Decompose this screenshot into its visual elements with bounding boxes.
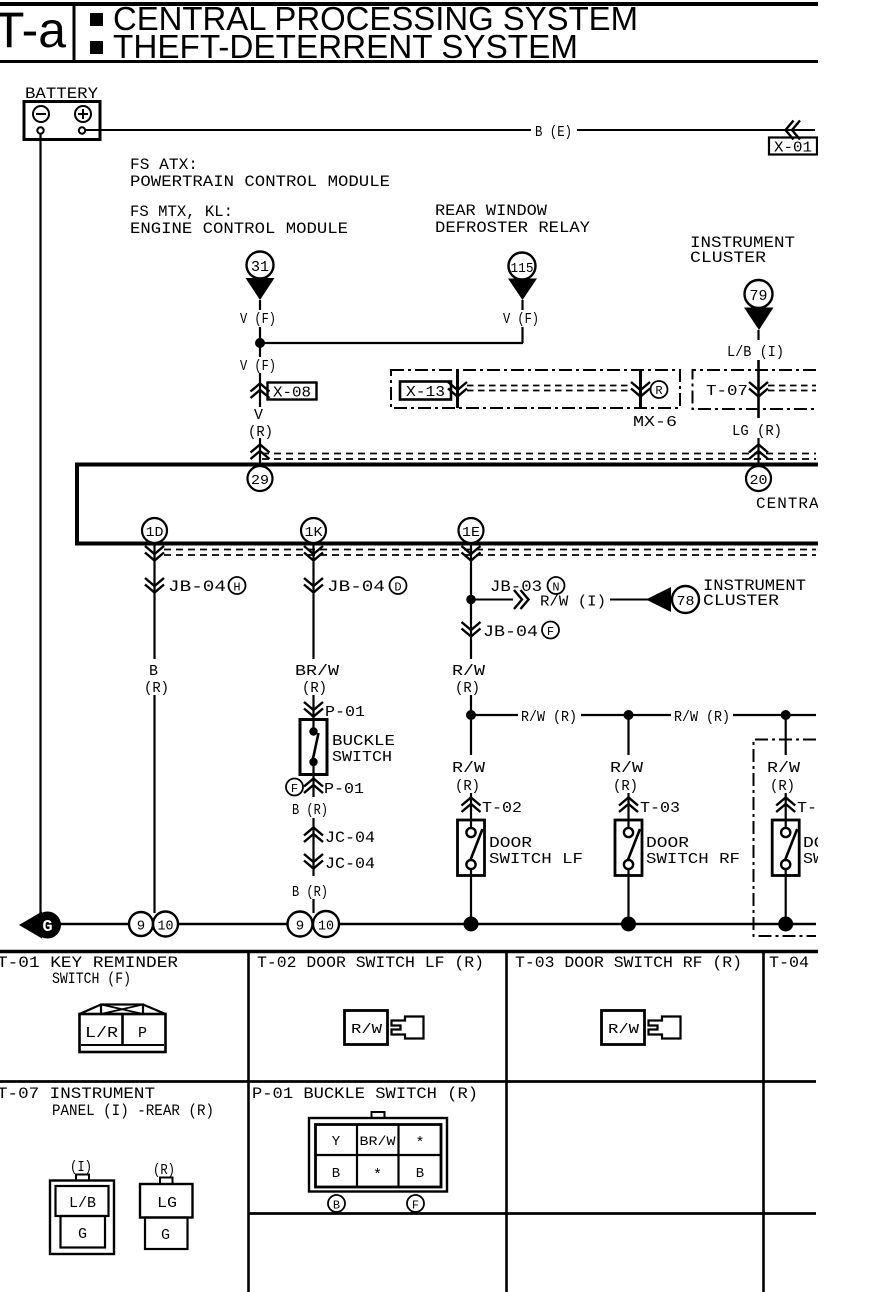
svg-text:CLUSTER: CLUSTER xyxy=(690,249,766,267)
svg-text:X-08: X-08 xyxy=(273,385,311,402)
svg-text:BR/W: BR/W xyxy=(360,1134,396,1149)
wire to arrow xyxy=(610,599,648,601)
chevron out of bus xyxy=(145,546,164,561)
svg-text:V: V xyxy=(254,407,263,424)
svg-text:DOOR: DOOR xyxy=(489,835,532,852)
svg-text:29: 29 xyxy=(251,473,269,489)
svg-text:H: H xyxy=(233,581,240,595)
svg-text:T-07: T-07 xyxy=(706,383,748,400)
svg-text:BUCKLE: BUCKLE xyxy=(332,733,395,750)
dashed pair to MX-6 relay xyxy=(467,385,630,387)
svg-text:B: B xyxy=(149,663,158,680)
buckle switch P-01 xyxy=(300,720,327,775)
wire down xyxy=(627,715,629,755)
svg-text:Y: Y xyxy=(332,1134,341,1150)
connector T-01 drawing xyxy=(80,1005,166,1053)
ring terminal 10 xyxy=(153,912,178,937)
svg-text:P-01: P-01 xyxy=(325,704,365,721)
circled F + chevron P-01 xyxy=(286,779,303,796)
pin 78 circle xyxy=(672,586,699,613)
svg-text:POWERTRAIN CONTROL MODULE: POWERTRAIN CONTROL MODULE xyxy=(130,173,390,191)
svg-text:F: F xyxy=(412,1199,419,1213)
door switch RF xyxy=(615,820,642,876)
wire below buckle switch xyxy=(312,762,314,797)
wire to ground xyxy=(785,869,787,924)
svg-text:T-07 INSTRUMENT: T-07 INSTRUMENT xyxy=(0,1085,155,1103)
wire 1K down xyxy=(312,543,314,659)
svg-text:JB-04: JB-04 xyxy=(483,623,538,641)
ring terminal 9 xyxy=(288,912,313,937)
svg-text:B (R): B (R) xyxy=(292,884,328,901)
svg-text:PANEL (I) -REAR (R): PANEL (I) -REAR (R) xyxy=(52,1102,214,1120)
wire through JC-04 xyxy=(312,818,314,876)
connector box X-13 xyxy=(400,382,451,400)
pin 29 circle xyxy=(248,466,273,491)
svg-text:G: G xyxy=(42,918,52,937)
header bottom border xyxy=(0,60,818,63)
pin 1D circle xyxy=(142,518,167,543)
wire to instrument cluster xyxy=(471,599,513,601)
wire horizontal join xyxy=(260,342,523,344)
svg-text:B (E): B (E) xyxy=(535,124,572,141)
svg-text:SWITCH LF: SWITCH LF xyxy=(489,851,583,868)
svg-text:D: D xyxy=(394,581,401,595)
connector T-07 (R) drawing xyxy=(140,1178,193,1250)
chevron P-01 xyxy=(304,702,323,717)
svg-text:(R): (R) xyxy=(144,680,169,697)
chevron T-07 xyxy=(749,382,768,397)
chevron into bus xyxy=(749,445,768,460)
arrow 115 xyxy=(508,279,537,301)
wire stub MX-6 xyxy=(639,370,642,408)
node door LF/RF xyxy=(624,710,634,720)
svg-text:P-01 BUCKLE SWITCH (R): P-01 BUCKLE SWITCH (R) xyxy=(252,1085,478,1103)
svg-text:FS ATX:: FS ATX: xyxy=(130,156,198,174)
chevron JC-04 up xyxy=(304,828,323,843)
circled B xyxy=(328,1195,345,1212)
wire to CPU xyxy=(259,438,261,464)
circled F xyxy=(407,1195,424,1212)
svg-text:(R): (R) xyxy=(302,680,327,697)
svg-text:*: * xyxy=(373,1167,382,1184)
svg-text:(R): (R) xyxy=(455,778,480,795)
svg-text:(R): (R) xyxy=(613,778,638,795)
connector P-01 drawing xyxy=(309,1112,447,1192)
spade terminal T-02 xyxy=(392,1017,424,1039)
ground node rear xyxy=(778,917,793,932)
svg-text:X-01: X-01 xyxy=(774,140,812,157)
arrow 79 xyxy=(744,308,774,331)
svg-text:(R): (R) xyxy=(455,680,480,697)
pin 115 circle xyxy=(509,253,536,280)
wire B(E) right xyxy=(577,129,815,131)
ring terminal 9 xyxy=(129,912,153,936)
option box MX-6 (chain line) xyxy=(391,370,680,408)
svg-text:20: 20 xyxy=(750,473,768,489)
connector chevron X-08 xyxy=(251,384,270,399)
chevron JB-04 (F) xyxy=(462,622,481,637)
svg-text:N: N xyxy=(552,581,559,595)
svg-text:CLUSTER: CLUSTER xyxy=(703,592,779,610)
svg-text:BR/W: BR/W xyxy=(295,663,339,680)
chevron JC-04 down xyxy=(304,854,323,869)
wire 1E down xyxy=(470,543,472,659)
chevron JB-04 xyxy=(304,578,323,593)
chevron JB-04 xyxy=(145,578,164,593)
svg-text:LG: LG xyxy=(157,1195,177,1212)
svg-text:F: F xyxy=(547,625,554,639)
wire + chevron T-04 xyxy=(785,793,787,828)
pin 20 circle xyxy=(746,466,771,491)
circled R xyxy=(651,381,668,398)
spade terminal T-03 xyxy=(649,1017,681,1039)
bullet square 2 xyxy=(90,41,103,54)
svg-text:1E: 1E xyxy=(462,525,480,541)
wire L/B xyxy=(757,330,759,340)
ring terminal 10 xyxy=(313,911,339,937)
connector T-03 drawing xyxy=(602,1011,645,1045)
svg-text:78: 78 xyxy=(677,594,695,610)
dashed pair right xyxy=(768,385,816,387)
wire down xyxy=(785,715,787,755)
svg-text:SWITCH: SWITCH xyxy=(803,851,863,868)
svg-text:DEFROSTER RELAY: DEFROSTER RELAY xyxy=(435,219,590,237)
svg-text:P: P xyxy=(138,1025,147,1042)
pin 31 circle xyxy=(247,252,274,279)
svg-text:DOOR: DOOR xyxy=(803,835,846,852)
svg-text:9: 9 xyxy=(137,919,145,935)
wire battery negative down xyxy=(39,134,41,915)
connector box X-01 xyxy=(769,138,817,155)
svg-text:R/W: R/W xyxy=(452,760,485,777)
arrow 31 xyxy=(246,278,275,300)
arrow to instrument cluster xyxy=(646,587,671,612)
table vertical border 1 xyxy=(247,952,250,1292)
wire V(F) left xyxy=(259,300,261,310)
svg-text:B: B xyxy=(333,1199,340,1213)
svg-text:T-02: T-02 xyxy=(482,800,522,817)
svg-text:115: 115 xyxy=(511,261,534,277)
option box T-07 (chain line) xyxy=(693,370,817,409)
svg-text:T-02 DOOR SWITCH LF (R): T-02 DOOR SWITCH LF (R) xyxy=(257,954,484,972)
svg-text:T-04: T-04 xyxy=(769,954,809,972)
svg-text:B: B xyxy=(332,1166,340,1182)
svg-text:L/B (I): L/B (I) xyxy=(727,344,784,361)
svg-text:R/W (I): R/W (I) xyxy=(540,594,606,611)
svg-text:L/B: L/B xyxy=(69,1195,96,1212)
header top border xyxy=(0,2,818,6)
svg-text:THEFT-DETERRENT SYSTEM: THEFT-DETERRENT SYSTEM xyxy=(113,28,578,65)
option box (chain line) xyxy=(754,740,817,937)
pin 79 circle xyxy=(745,280,773,308)
ground symbol G xyxy=(19,912,42,939)
svg-text:MX-6: MX-6 xyxy=(633,414,677,431)
svg-text:(R): (R) xyxy=(770,778,795,795)
table vertical border 2 xyxy=(505,952,508,1292)
table row border 1 xyxy=(0,1080,816,1083)
connector box X-08 xyxy=(268,383,317,400)
wire + chevron T-03 xyxy=(627,793,629,828)
door switch LF xyxy=(458,820,485,876)
svg-text:10: 10 xyxy=(318,919,334,935)
svg-text:(I): (I) xyxy=(70,1159,92,1176)
svg-text:V (F): V (F) xyxy=(240,311,276,328)
bus dashed pair above top edge xyxy=(262,453,816,455)
svg-text:L/R: L/R xyxy=(85,1025,118,1042)
table vertical border 3 xyxy=(762,952,765,1292)
table row border 2 xyxy=(249,1212,817,1215)
door switch rear xyxy=(772,820,799,876)
svg-text:V (F): V (F) xyxy=(240,358,276,375)
chevron MX-6 xyxy=(631,382,650,397)
wire to bus xyxy=(757,438,759,464)
wire to ground xyxy=(470,869,472,924)
svg-text:31: 31 xyxy=(251,259,269,276)
svg-text:1K: 1K xyxy=(305,525,324,541)
battery B+ xyxy=(24,102,100,140)
svg-text:JB-04: JB-04 xyxy=(327,578,385,596)
CPU box bottom edge xyxy=(75,542,818,546)
bullet square 1 xyxy=(90,13,103,26)
connector T-07 (I) drawing xyxy=(50,1175,114,1255)
node R/W xyxy=(466,710,476,720)
node to cluster xyxy=(466,595,476,605)
header divider vertical xyxy=(73,2,76,62)
svg-text:B: B xyxy=(416,1166,424,1182)
svg-text:FS MTX, KL:: FS MTX, KL: xyxy=(130,203,233,221)
svg-text:R/W (R): R/W (R) xyxy=(674,709,730,726)
svg-text:SWITCH (F): SWITCH (F) xyxy=(52,970,131,988)
wire stub through X-13 xyxy=(456,370,459,408)
CPU box top edge xyxy=(75,463,818,467)
svg-text:R/W (R): R/W (R) xyxy=(521,709,577,726)
svg-text:SWITCH: SWITCH xyxy=(332,749,392,766)
svg-text:T-04: T-04 xyxy=(797,800,837,817)
chevron JB-03 right xyxy=(514,590,529,609)
svg-text:LG (R): LG (R) xyxy=(732,423,782,440)
svg-text:R/W: R/W xyxy=(452,663,485,680)
CPU box left edge xyxy=(75,463,79,544)
wire to buckle switch xyxy=(312,695,314,731)
wire 1D down xyxy=(153,543,155,659)
connector T-02 drawing xyxy=(345,1011,388,1045)
svg-text:P-01: P-01 xyxy=(324,781,364,798)
wire below junction xyxy=(259,343,261,357)
chevron out of bus xyxy=(462,546,481,561)
svg-text:B (R): B (R) xyxy=(292,802,328,819)
svg-text:SWITCH RF: SWITCH RF xyxy=(646,851,740,868)
svg-text:T-03: T-03 xyxy=(640,800,680,817)
wire 1D down to ground xyxy=(153,695,155,913)
svg-text:R/W: R/W xyxy=(767,760,800,777)
svg-text:1D: 1D xyxy=(146,525,164,541)
svg-text:(R): (R) xyxy=(153,1162,175,1179)
table top border xyxy=(0,950,818,954)
node junction xyxy=(255,338,265,348)
chevron X-13 xyxy=(448,382,467,397)
wire to node xyxy=(470,695,472,715)
svg-text:R/W: R/W xyxy=(608,1022,640,1038)
svg-text:JC-04: JC-04 xyxy=(325,829,375,847)
svg-text:R/W: R/W xyxy=(610,760,643,777)
wire down xyxy=(470,715,472,755)
ground wire xyxy=(55,923,816,925)
svg-text:DOOR: DOOR xyxy=(646,835,689,852)
chevron out of bus xyxy=(304,546,323,561)
svg-text:X-13: X-13 xyxy=(406,384,445,401)
svg-text:*: * xyxy=(415,1135,424,1152)
svg-text:JC-04: JC-04 xyxy=(325,855,375,873)
svg-text:CENTRAL PROC: CENTRAL PROC xyxy=(756,495,880,513)
ground node RF xyxy=(621,917,636,932)
connector chevron to X-01 xyxy=(786,121,801,140)
svg-text:V (F): V (F) xyxy=(503,311,539,328)
wire + chevron T-02 xyxy=(470,793,472,828)
wire B(E) xyxy=(85,129,531,131)
node door rear xyxy=(781,710,791,720)
svg-text:G: G xyxy=(78,1226,87,1243)
svg-text:ENGINE CONTROL MODULE: ENGINE CONTROL MODULE xyxy=(130,220,348,238)
svg-text:9: 9 xyxy=(296,919,304,935)
wire to ground xyxy=(627,869,629,924)
wire V(F) right xyxy=(521,300,523,310)
pin 1E circle xyxy=(459,518,484,543)
svg-text:T-03 DOOR SWITCH RF (R): T-03 DOOR SWITCH RF (R) xyxy=(515,954,742,972)
svg-text:JB-04: JB-04 xyxy=(168,578,226,596)
pin 1K circle xyxy=(301,518,326,543)
svg-text:G: G xyxy=(161,1227,170,1244)
svg-text:REAR WINDOW: REAR WINDOW xyxy=(435,202,547,220)
ground node LF xyxy=(464,917,479,932)
svg-text:79: 79 xyxy=(750,288,768,305)
chevron into bus xyxy=(251,445,270,460)
svg-text:R: R xyxy=(655,384,662,398)
bus dashed pair below bottom edge xyxy=(164,549,816,551)
svg-text:10: 10 xyxy=(158,919,174,935)
wire to ground xyxy=(312,899,314,913)
wire R/W across xyxy=(471,714,518,716)
svg-text:R/W: R/W xyxy=(351,1022,383,1038)
wire through T-07 xyxy=(757,360,760,418)
svg-text:T-a: T-a xyxy=(0,2,66,58)
svg-text:F: F xyxy=(291,782,298,796)
